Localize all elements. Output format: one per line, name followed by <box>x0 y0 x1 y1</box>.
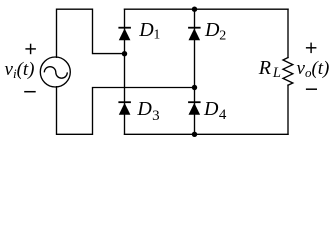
diode D2 <box>188 19 226 43</box>
svg-text:4: 4 <box>219 107 227 123</box>
node top rail / right rail <box>192 7 197 12</box>
diode D1 <box>118 19 160 42</box>
svg-text:3: 3 <box>152 108 160 124</box>
diode D4 <box>188 98 227 123</box>
svg-text:vo(t): vo(t) <box>297 58 330 80</box>
wire right bridge rail <box>194 9 196 134</box>
resistor RL zigzag <box>283 58 293 86</box>
label minus left <box>24 91 36 93</box>
source sine wave <box>44 67 67 79</box>
diode D3 <box>118 98 159 124</box>
node left rail mid <box>122 51 127 56</box>
svg-text:D: D <box>138 19 154 41</box>
label plus right <box>306 43 317 54</box>
svg-text:D: D <box>203 98 219 120</box>
source Vi circle <box>40 57 70 87</box>
svg-text:D: D <box>204 19 220 41</box>
svg-text:vi(t): vi(t) <box>5 59 35 81</box>
wire bottom rail <box>125 133 289 135</box>
svg-text:R: R <box>258 57 271 79</box>
label plus left <box>25 44 36 55</box>
svg-text:2: 2 <box>219 29 226 44</box>
svg-text:L: L <box>272 65 281 81</box>
wire left bridge rail <box>124 9 126 134</box>
wire source bottom step <box>57 87 195 135</box>
wire load branch bottom <box>287 85 289 134</box>
label minus right <box>306 88 317 90</box>
wire load branch top <box>287 9 289 57</box>
svg-text:D: D <box>136 98 152 120</box>
node bottom rail / right rail <box>192 132 197 137</box>
svg-text:1: 1 <box>154 27 161 42</box>
wire source top step <box>57 9 125 57</box>
node right rail mid <box>192 85 197 90</box>
wire top rail <box>125 8 289 10</box>
